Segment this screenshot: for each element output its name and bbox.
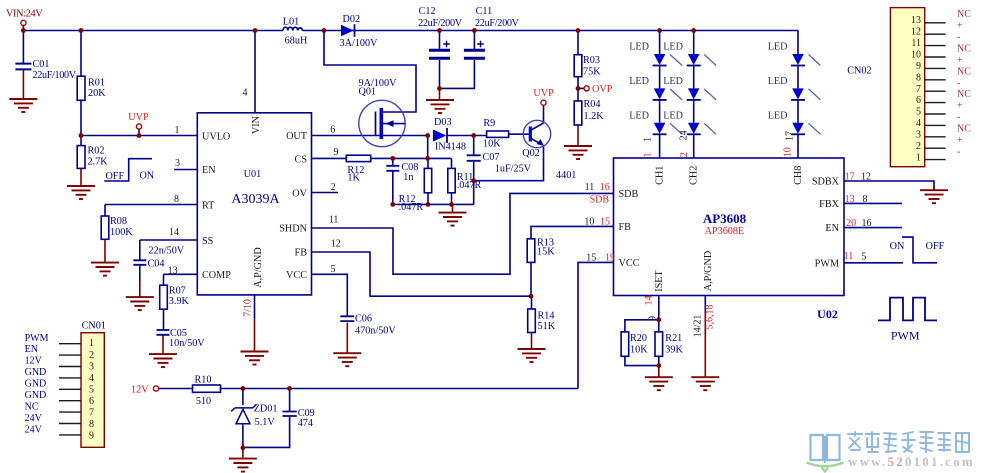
transistor Q01 NMOS 9A 100V: [359, 100, 405, 146]
wire R20 bottom to R21 bottom: [625, 356, 659, 365]
svg-text:CH8: CH8: [793, 166, 804, 185]
svg-text:CN01: CN01: [82, 321, 106, 332]
svg-text:R04: R04: [584, 99, 601, 110]
ground R21: [645, 377, 673, 390]
terminal UVP pin1: [136, 124, 141, 129]
svg-text:10: 10: [584, 217, 594, 228]
wire C04 top lead: [139, 240, 141, 260]
svg-text:A,P/GND: A,P/GND: [253, 247, 264, 287]
wire C12 C11 ground stub: [439, 88, 441, 100]
svg-text:474: 474: [298, 418, 313, 429]
svg-text:24: 24: [678, 130, 689, 140]
svg-text:16: 16: [862, 218, 872, 229]
svg-text:NC: NC: [957, 66, 971, 77]
svg-text:R01: R01: [88, 78, 105, 89]
svg-text:CN02: CN02: [847, 66, 871, 77]
svg-text:13: 13: [845, 194, 855, 205]
resistor R11 0.047R: [448, 168, 455, 192]
svg-text:14/21: 14/21: [693, 315, 704, 338]
wire VCC U01 pin 5 to C06: [312, 274, 348, 316]
LED CH8 row 2: [791, 88, 821, 100]
svg-text:5: 5: [916, 107, 921, 118]
wire FB U01 to divider node: [312, 252, 532, 296]
svg-text:LED: LED: [768, 110, 788, 121]
wire R08 ground stub: [104, 239, 106, 262]
wire U02 VCC to 12V rail: [578, 262, 614, 388]
junction node C09 12V rail: [287, 386, 292, 391]
wire C05 ground stub: [162, 335, 164, 354]
svg-text:OVP: OVP: [592, 84, 613, 95]
svg-text:OFF: OFF: [926, 241, 945, 252]
ground R08: [91, 263, 119, 276]
svg-text:20: 20: [846, 218, 856, 229]
svg-text:RT: RT: [202, 201, 215, 212]
svg-text:NC: NC: [957, 43, 971, 54]
capacitor C05 10n 50V: [157, 330, 170, 335]
wire COMP pin 13: [164, 273, 198, 275]
wire U02 FBX stub: [844, 202, 902, 204]
wire UVP terminal stub: [138, 129, 140, 136]
resistor R02 2.7K: [77, 146, 85, 169]
connector CN02 pin stubs: [925, 23, 946, 160]
ground C04: [126, 297, 154, 310]
svg-text:1: 1: [175, 125, 180, 136]
wire EN pin 3 stub: [174, 169, 197, 171]
wire R11 bottom lead: [451, 193, 453, 205]
junction node rail at R03: [576, 28, 581, 33]
svg-text:SS: SS: [202, 236, 214, 247]
resistor R21 39K: [655, 332, 663, 356]
svg-text:NC: NC: [957, 89, 971, 100]
wire ZD01 ground stub: [242, 448, 244, 459]
wire D03 cathode to R9 node: [448, 135, 487, 137]
wire sense rail ground stub: [452, 204, 454, 212]
svg-text:1: 1: [643, 153, 654, 158]
wire R12 to sense node rail: [371, 157, 452, 159]
capacitor C01 22uF 100V: [15, 64, 31, 70]
connector CN01 pin stubs: [59, 344, 81, 435]
capacitor C04 22n 50V: [133, 260, 146, 265]
svg-text:3.9K: 3.9K: [169, 296, 190, 307]
wire C06 ground stub: [346, 323, 348, 354]
svg-text:5: 5: [331, 264, 336, 275]
svg-text:SHDN: SHDN: [279, 224, 307, 235]
svg-text:CS: CS: [295, 155, 308, 166]
svg-text:-: -: [957, 78, 960, 89]
ground R02: [67, 186, 95, 199]
wire C07 top lead: [473, 136, 475, 156]
op-amp U01 A3039A chip body: [197, 113, 311, 295]
LED CH2 row 3: [687, 123, 717, 135]
svg-text:5,6,18: 5,6,18: [705, 305, 716, 330]
wire R03 bottom to R04 top: [577, 77, 579, 101]
svg-text:PWM: PWM: [891, 329, 920, 343]
wire C04 ground stub: [139, 281, 141, 297]
svg-text:-: -: [957, 147, 960, 158]
svg-text:R14: R14: [538, 311, 555, 322]
svg-text:11: 11: [911, 38, 921, 49]
svg-text:UVP: UVP: [533, 88, 554, 99]
svg-text:2: 2: [331, 182, 336, 193]
terminal OVP: [584, 86, 589, 91]
junction node rail at R01: [79, 28, 84, 33]
svg-text:FBX: FBX: [819, 199, 839, 210]
junction node OVP divider: [576, 86, 581, 91]
wire OVP terminal stub: [578, 87, 584, 89]
wire C04 bottom lead upper part: [139, 265, 141, 281]
junction node rail at U01 VIN pin: [253, 28, 258, 33]
svg-text:GND: GND: [25, 379, 47, 390]
svg-text:4401: 4401: [556, 170, 576, 181]
junction node sense rail R12b: [426, 202, 431, 207]
svg-text:8: 8: [863, 194, 868, 205]
svg-text:AP3608E: AP3608E: [705, 226, 745, 237]
capacitor C08 1n: [386, 166, 399, 171]
wire U02 APGND ground stub: [704, 312, 706, 377]
svg-text:5: 5: [861, 252, 866, 263]
svg-text:14: 14: [169, 227, 179, 238]
svg-text:6: 6: [916, 95, 921, 106]
capacitor C09 474: [282, 412, 296, 417]
switch ON-OFF near U02 PWM: [902, 237, 937, 263]
svg-text:5: 5: [89, 384, 94, 395]
svg-text:PWM: PWM: [25, 333, 49, 344]
svg-text:+: +: [957, 135, 963, 146]
LED CH1 row 3: [653, 123, 683, 135]
terminal 12V: [153, 386, 158, 391]
svg-text:D02: D02: [343, 14, 361, 25]
junction node R10 ZD01: [241, 386, 246, 391]
svg-text:EN: EN: [825, 223, 839, 234]
wire C11 bottom to C12 bottom: [440, 60, 475, 88]
wire OUT pin 6 to D03 anode: [312, 135, 428, 137]
svg-text:C06: C06: [355, 313, 372, 324]
svg-text:D03: D03: [434, 117, 452, 128]
wire U02 SDBX to ground: [844, 181, 934, 190]
svg-text:3: 3: [916, 130, 921, 141]
svg-text:1: 1: [643, 137, 654, 142]
wire Q01 drain stub: [324, 31, 416, 113]
svg-text:ZD01: ZD01: [254, 403, 278, 414]
svg-text:LED: LED: [663, 42, 683, 53]
junction node UVLO divider: [79, 133, 84, 138]
wire 12V terminal to R10: [159, 388, 193, 390]
svg-text:LED: LED: [629, 110, 649, 121]
svg-text:Q02: Q02: [522, 148, 540, 159]
wire R21 ground stub: [658, 366, 660, 378]
ground C06: [333, 353, 361, 366]
svg-text:1: 1: [916, 153, 921, 164]
wire VIN terminal stub: [22, 26, 24, 31]
wire U02 APGND pin upper: [704, 296, 706, 313]
wire C12 top lead: [439, 31, 441, 49]
svg-text:VIN:24V: VIN:24V: [6, 9, 43, 20]
svg-text:.047R: .047R: [399, 202, 424, 213]
wire C09 top lead: [289, 389, 291, 412]
switch OFF-ON near EN U01: [104, 159, 152, 181]
wire R07 top lead: [163, 274, 165, 285]
wire R04 ground stub: [577, 125, 579, 146]
diode D02 3A 100V: [341, 24, 355, 37]
svg-text:C12: C12: [419, 6, 436, 17]
resistor R01 20K: [77, 76, 85, 100]
wire SDBX ground stub: [933, 186, 935, 190]
junction node rail at C11: [472, 28, 477, 33]
svg-text:CH2: CH2: [689, 166, 700, 185]
svg-text:COMP: COMP: [202, 270, 231, 281]
terminal VIN: [21, 20, 26, 25]
junction node ZD01 C09 ground: [241, 445, 246, 450]
svg-text:A3039A: A3039A: [231, 192, 280, 207]
svg-text:8: 8: [174, 194, 179, 205]
junction node CS at C08: [390, 156, 395, 161]
capacitor C06 470n 50V: [340, 316, 354, 321]
svg-text:SDBX: SDBX: [812, 177, 840, 188]
junction node C07 Q02 emitter: [471, 178, 476, 183]
svg-text:20K: 20K: [88, 88, 106, 99]
resistor R07 3.9K: [160, 285, 168, 309]
svg-text:2: 2: [679, 152, 690, 157]
resistor R20 10K: [621, 332, 629, 356]
wire R9 to Q02 base: [509, 133, 530, 135]
svg-text:SDB: SDB: [619, 189, 639, 200]
svg-text:R9: R9: [483, 118, 495, 129]
wire R12b bottom lead: [427, 193, 429, 205]
svg-text:UVLO: UVLO: [202, 132, 230, 143]
svg-text:GND: GND: [25, 390, 47, 401]
svg-text:+: +: [957, 101, 963, 112]
ground R14: [518, 349, 546, 362]
junction node rail at C12: [437, 28, 442, 33]
wire U02 ISET pin lead: [658, 296, 660, 320]
svg-text:10K: 10K: [630, 345, 648, 356]
LED CH1 row 2: [653, 88, 683, 100]
svg-text:NC: NC: [957, 9, 971, 20]
svg-text:22uF/200V: 22uF/200V: [418, 18, 463, 29]
svg-text:68uH: 68uH: [285, 36, 308, 47]
svg-text:4: 4: [243, 87, 248, 98]
LED CH1 row 1: [653, 54, 683, 66]
svg-text:12: 12: [861, 172, 871, 183]
wire U01 AGND pin upper: [254, 295, 256, 318]
wire Q02 emitter down and left: [474, 146, 544, 181]
LED CH2 row 1: [687, 54, 717, 66]
svg-text:51K: 51K: [538, 321, 556, 332]
svg-text:.047R: .047R: [457, 180, 482, 191]
wire Q02 collector to UVP: [543, 105, 545, 123]
svg-text:IN4148: IN4148: [435, 142, 466, 153]
svg-text:15: 15: [600, 217, 610, 228]
transistor Q02 PNP 4401: [523, 120, 550, 147]
wire R10 to VCC rail long run: [221, 388, 579, 390]
svg-text:1n: 1n: [403, 172, 413, 183]
svg-text:+: +: [957, 21, 963, 32]
ground SDBX: [920, 190, 948, 203]
svg-text:10K: 10K: [483, 139, 501, 150]
wire R01 bottom to UVLO node: [80, 100, 82, 135]
junction node rail at CH2 string: [691, 28, 696, 33]
svg-text:1K: 1K: [347, 173, 360, 184]
wire SHDN to U02 SDB: [312, 193, 614, 274]
wire CH2 LED string column: [693, 31, 695, 159]
wire OV pin 2 stub: [312, 192, 339, 194]
svg-text:2: 2: [89, 350, 94, 361]
svg-text:9: 9: [916, 61, 921, 72]
wire C12 bottom lead: [439, 60, 441, 88]
svg-text:AP3608: AP3608: [703, 211, 747, 226]
svg-text:C01: C01: [33, 59, 50, 70]
junction node VIN rail at C01: [21, 28, 26, 33]
capacitor C12 22uF 200V polarized: [429, 41, 450, 59]
op-amp U02 AP3608 chip body: [614, 158, 845, 296]
junction node FB divider: [529, 294, 534, 299]
svg-text:19: 19: [605, 252, 615, 263]
wire R21 bottom lead: [658, 356, 660, 365]
svg-text:R21: R21: [665, 333, 682, 344]
wire R02 ground stub: [80, 168, 82, 186]
svg-text:9: 9: [89, 431, 94, 442]
svg-text:24V: 24V: [25, 424, 43, 435]
svg-text:22n/50V: 22n/50V: [149, 245, 185, 256]
svg-text:9: 9: [334, 147, 339, 158]
LED CH8 row 3: [791, 123, 821, 135]
svg-text:10: 10: [911, 49, 921, 60]
svg-text:470n/50V: 470n/50V: [355, 326, 396, 337]
junction node D03 anode: [425, 133, 430, 138]
wire rail L01 to D02 to CH8 corner: [303, 30, 799, 32]
svg-text:510: 510: [196, 396, 211, 407]
diode D03 IN4148: [433, 128, 447, 143]
svg-text:ON: ON: [139, 171, 154, 182]
junction node C12 C11 ground: [437, 86, 442, 91]
svg-text:FB: FB: [619, 222, 632, 233]
svg-text:VIN: VIN: [251, 115, 262, 134]
svg-text:R07: R07: [169, 286, 186, 297]
svg-text:10n/50V: 10n/50V: [169, 338, 205, 349]
PWM waveform symbol: [878, 298, 937, 321]
svg-text:12: 12: [911, 27, 921, 38]
svg-text:R08: R08: [110, 216, 127, 227]
wire CS pin 9 to R12: [312, 157, 347, 159]
svg-text:5.1V: 5.1V: [255, 417, 276, 428]
svg-text:39K: 39K: [665, 345, 683, 356]
svg-text:C11: C11: [476, 6, 493, 17]
svg-text:LED: LED: [629, 76, 649, 87]
svg-text:-: -: [957, 112, 960, 123]
wire R14 ground stub: [531, 333, 533, 350]
svg-text:U02: U02: [817, 307, 838, 321]
svg-text:1: 1: [89, 338, 94, 349]
wire U02 PWM stub: [844, 262, 903, 264]
svg-text:LED: LED: [768, 76, 788, 87]
resistor R10 510: [193, 385, 221, 392]
svg-text:VCC: VCC: [286, 270, 307, 281]
svg-text:4: 4: [89, 373, 94, 384]
svg-text:C04: C04: [148, 259, 165, 270]
wire R14 top lead: [531, 296, 533, 309]
resistor R12 1K: [346, 155, 370, 161]
resistor R13 15K: [527, 239, 535, 263]
svg-text:R10: R10: [195, 375, 212, 386]
junction node sense rail R11: [449, 202, 454, 207]
svg-text:NC: NC: [25, 401, 39, 412]
junction node UVP terminal: [137, 133, 142, 138]
wire C08 bottom lead: [392, 171, 394, 204]
svg-text:OUT: OUT: [286, 131, 308, 142]
svg-text:CH1: CH1: [655, 166, 666, 185]
wire VIN pin 4 drop: [254, 31, 256, 114]
ground U02 APGND: [691, 377, 719, 390]
svg-text:Q01: Q01: [359, 86, 377, 97]
svg-text:3: 3: [175, 158, 180, 169]
svg-text:22uF/200V: 22uF/200V: [475, 18, 520, 29]
ground C05: [149, 354, 177, 367]
svg-text:A,P/GND: A,P/GND: [703, 251, 714, 291]
svg-text:15K: 15K: [537, 247, 555, 258]
wire CH1 LED string column: [659, 31, 661, 159]
LED CH8 row 1: [791, 54, 821, 66]
wire R12b top lead: [427, 158, 429, 168]
svg-text:LED: LED: [663, 76, 683, 87]
svg-text:EN: EN: [25, 344, 38, 355]
wire SS pin 14: [140, 239, 198, 241]
wire C08 top lead: [392, 158, 394, 165]
svg-text:LED: LED: [629, 42, 649, 53]
ground R04: [564, 146, 592, 159]
svg-text:GND: GND: [25, 367, 47, 378]
svg-text:100K: 100K: [110, 227, 133, 238]
svg-text:R03: R03: [583, 55, 600, 66]
zener ZD01 5.1V: [231, 405, 256, 424]
svg-text:12V: 12V: [25, 356, 43, 367]
svg-text:6: 6: [89, 396, 94, 407]
wire RT pin 8: [105, 204, 197, 206]
svg-text:7: 7: [916, 84, 921, 95]
wire main top rail VIN: [23, 30, 283, 32]
resistor R08 100K: [101, 216, 109, 239]
svg-text:www.520101.com: www.520101.com: [848, 454, 975, 469]
ground C01: [9, 99, 37, 112]
wire C11 top lead: [473, 31, 475, 49]
wire R07 to C05: [163, 309, 165, 330]
svg-text:16: 16: [600, 182, 610, 193]
inductor L01 68uH: [283, 27, 302, 30]
svg-text:UVP: UVP: [128, 112, 149, 123]
ground sense rail: [439, 213, 467, 226]
svg-text:OV: OV: [292, 189, 307, 200]
svg-text:15: 15: [586, 252, 596, 263]
resistor R12b 0.047R: [424, 168, 431, 192]
svg-text:+: +: [957, 55, 963, 66]
junction node CS at R12b: [425, 156, 430, 161]
wire CH8 LED string column: [797, 31, 799, 159]
svg-text:75K: 75K: [583, 66, 601, 77]
wire C01 ground stub: [22, 70, 24, 99]
watermark book underline green: [807, 463, 844, 472]
svg-text:7: 7: [89, 408, 94, 419]
watermark book icon: [811, 435, 840, 463]
svg-text:LED: LED: [768, 42, 788, 53]
capacitor C11 22uF 200V polarized: [464, 41, 485, 59]
ground C12 C11: [426, 100, 454, 113]
junction node R20 R21 bottom: [656, 363, 661, 368]
svg-text:8: 8: [89, 419, 94, 430]
svg-text:FB: FB: [295, 248, 308, 259]
svg-text:ON: ON: [890, 241, 905, 252]
svg-text:22uF/100V: 22uF/100V: [33, 70, 77, 81]
svg-text:17: 17: [785, 131, 796, 141]
svg-text:17: 17: [845, 172, 855, 183]
